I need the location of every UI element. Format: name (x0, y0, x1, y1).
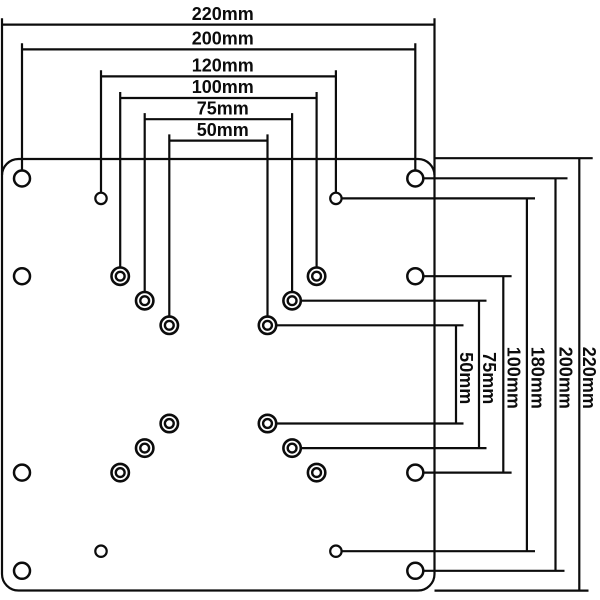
plate outline (2, 159, 435, 591)
svg-text:220mm: 220mm (579, 347, 599, 409)
dimension 75mm top: right extension to VESA75 hole (291, 113, 293, 292)
svg-text:120mm: 120mm (192, 56, 254, 76)
edge hole mid-right lower (407, 465, 423, 481)
dimension 180mm right: top extension from small hole (342, 197, 535, 199)
dimension 75mm top: left extension to VESA75 hole (144, 113, 146, 292)
svg-text:75mm: 75mm (479, 352, 499, 404)
dimension 120mm top: left extension to small hole (100, 70, 102, 192)
dimension 50mm top: right extension to VESA50 hole (266, 134, 268, 316)
VESA100 hole bottom-left (112, 464, 129, 481)
dimension 100mm top: left extension to VESA100 hole (119, 92, 121, 268)
dimension 200mm top: horizontal line (22, 48, 415, 50)
dimension 220mm right: bottom extension (plate bottom edge extended right) (435, 589, 589, 591)
svg-text:50mm: 50mm (197, 120, 249, 140)
VESA100 hole top-left (112, 268, 129, 285)
dimension 50mm top: horizontal line (169, 140, 267, 142)
corner hole top-right (407, 171, 423, 187)
dimension 120mm top: right extension to small hole (335, 70, 337, 192)
dimension 100mm right: vertical line (502, 276, 504, 472)
dimension 220mm top: right extension (plate right edge extended up) (433, 18, 435, 175)
edge hole mid-left upper (14, 268, 30, 284)
VESA50 hole top-right (259, 317, 276, 334)
svg-text:180mm: 180mm (527, 347, 547, 409)
dimension 75mm top: horizontal line (145, 118, 292, 120)
VESA75 hole top-left (136, 292, 153, 309)
svg-text:220mm: 220mm (192, 4, 254, 24)
dimension 200mm top: left extension to corner hole (21, 43, 23, 170)
VESA75 hole top-right (283, 292, 300, 309)
svg-text:100mm: 100mm (192, 77, 254, 97)
dimension 75mm right: vertical line (478, 301, 480, 448)
dimension 100mm right: top extension from right edge hole (423, 275, 511, 277)
VESA50 hole top-left (161, 317, 178, 334)
dimension 220mm top: horizontal line (2, 24, 435, 26)
dimension 50mm top: left extension to VESA50 hole (168, 134, 170, 316)
small hole bottom-left (95, 546, 106, 557)
small hole top-left (95, 193, 106, 204)
dimension 180mm right: vertical line (526, 198, 528, 551)
dimension 200mm right: bottom extension from corner hole (423, 570, 564, 572)
corner hole bottom-left (14, 563, 30, 579)
dimension 50mm right: bottom extension from VESA50 hole (276, 422, 463, 424)
edge hole mid-right upper (407, 268, 423, 284)
small hole top-right (330, 193, 341, 204)
dimension 120mm top: horizontal line (101, 75, 336, 77)
VESA100 hole top-right (308, 268, 325, 285)
dimension 200mm right: vertical line (554, 178, 556, 571)
dimension 180mm right: bottom extension from small hole (342, 550, 535, 552)
svg-text:200mm: 200mm (556, 347, 576, 409)
dimension 220mm right: vertical line (578, 158, 580, 590)
corner hole top-left (14, 171, 30, 187)
VESA50 hole bottom-left (161, 415, 178, 432)
corner hole bottom-right (407, 563, 423, 579)
svg-text:50mm: 50mm (456, 352, 476, 404)
svg-text:200mm: 200mm (192, 29, 254, 49)
dimension 100mm top: right extension to VESA100 hole (316, 92, 318, 268)
VESA75 hole bottom-left (136, 439, 153, 456)
dimension 50mm right: top extension from VESA50 hole (276, 324, 463, 326)
dimension 220mm right: top extension (plate top edge extended right) (435, 157, 593, 159)
dimension 220mm top: left extension (plate left edge extended up) (1, 18, 3, 175)
dimension 75mm right: top extension from VESA75 hole (301, 300, 487, 302)
dimension 200mm right: top extension from corner hole (423, 177, 567, 179)
dimension 200mm top: right extension to corner hole (414, 43, 416, 170)
VESA100 hole bottom-right (308, 464, 325, 481)
edge hole mid-left lower (14, 465, 30, 481)
dimension 100mm top: horizontal line (120, 97, 316, 99)
svg-text:100mm: 100mm (504, 347, 524, 409)
VESA50 hole bottom-right (259, 415, 276, 432)
dimension 75mm right: bottom extension from VESA75 hole (301, 447, 487, 449)
small hole bottom-right (330, 546, 341, 557)
dimension 100mm right: bottom extension from right edge hole (423, 472, 511, 474)
VESA75 hole bottom-right (283, 439, 300, 456)
svg-text:75mm: 75mm (197, 98, 249, 118)
dimension 50mm right: vertical line (455, 325, 457, 423)
